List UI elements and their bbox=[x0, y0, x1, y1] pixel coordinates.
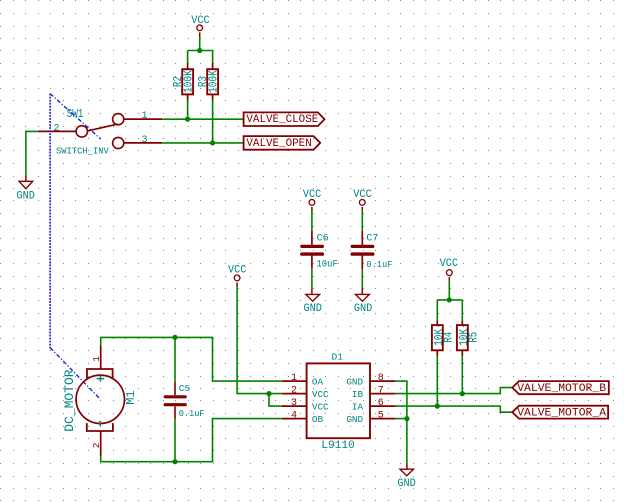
junction pin5/pin8 bbox=[404, 416, 409, 421]
pin 5 GND (D1) bbox=[346, 411, 395, 426]
svg-text:2: 2 bbox=[91, 443, 102, 449]
svg-text:3: 3 bbox=[141, 135, 147, 146]
svg-text:C6: C6 bbox=[317, 234, 329, 245]
ground GND (C6) bbox=[303, 288, 321, 315]
ground GND (C7) bbox=[354, 288, 372, 315]
power VCC (above R4/R5) bbox=[440, 258, 458, 281]
mechanical link dashed line (vertical) bbox=[49, 94, 51, 348]
motor plus mark bbox=[97, 376, 105, 382]
global label VALVE_OPEN bbox=[244, 136, 321, 150]
pin 2 VCC (D1) bbox=[282, 386, 329, 401]
wire IC pin5 to ground rail bbox=[396, 418, 407, 420]
svg-text:GND: GND bbox=[354, 303, 372, 315]
pin 6 IA (D1) bbox=[352, 398, 396, 413]
junction at VCC split bbox=[197, 48, 202, 53]
wire C7 to ground bbox=[361, 269, 363, 288]
svg-text:1: 1 bbox=[141, 111, 147, 122]
wire R4 bottom to node row pin6 bbox=[436, 356, 438, 407]
svg-text:GND: GND bbox=[16, 190, 34, 202]
wire C6 to ground bbox=[311, 269, 313, 288]
wire ground rail down bbox=[406, 419, 408, 464]
svg-text:GND: GND bbox=[346, 377, 363, 388]
junction C5 top bbox=[172, 335, 177, 340]
wire IC pin6 to VALVE_MOTOR_A bbox=[396, 406, 513, 412]
pin 3 VCC (D1) bbox=[282, 398, 329, 413]
svg-text:8: 8 bbox=[378, 373, 384, 384]
svg-text:VCC: VCC bbox=[312, 389, 329, 400]
global label VALVE_CLOSE bbox=[244, 112, 325, 126]
svg-text:C5: C5 bbox=[179, 383, 191, 394]
power VCC (above C7) bbox=[353, 189, 371, 211]
svg-text:GND: GND bbox=[346, 414, 363, 425]
svg-text:VALVE_MOTOR_B: VALVE_MOTOR_B bbox=[517, 383, 606, 395]
wire row3: switch pin3 to VALVE_OPEN bbox=[162, 142, 243, 144]
wire VCC to R4/R5 tops bbox=[437, 281, 462, 321]
pin 1 OA (D1) bbox=[282, 373, 324, 388]
power VCC (above C6) bbox=[303, 189, 321, 211]
op-amp driver IC D1 body bbox=[307, 363, 370, 438]
wire IC pin8 to ground rail bbox=[396, 381, 407, 419]
svg-text:100K: 100K bbox=[183, 70, 196, 93]
mechanical link dashed line (switch lever) bbox=[50, 94, 101, 139]
svg-text:OB: OB bbox=[312, 414, 324, 425]
svg-text:VALVE_MOTOR_A: VALVE_MOTOR_A bbox=[517, 408, 606, 420]
junction row3/R3 bbox=[210, 140, 215, 145]
svg-text:IA: IA bbox=[352, 402, 364, 413]
svg-text:6: 6 bbox=[378, 398, 384, 409]
svg-text:R5: R5 bbox=[467, 332, 481, 343]
svg-text:VALVE_CLOSE: VALVE_CLOSE bbox=[246, 114, 318, 126]
svg-text:GND: GND bbox=[303, 303, 321, 315]
power VCC (IC pin2) bbox=[228, 264, 246, 286]
resistor R5 bbox=[457, 320, 468, 355]
svg-text:3: 3 bbox=[291, 398, 297, 409]
wire R2 bottom to node row1 bbox=[187, 100, 189, 119]
svg-text:GND: GND bbox=[397, 478, 415, 490]
svg-text:SWITCH_INV: SWITCH_INV bbox=[56, 146, 110, 156]
svg-text:IB: IB bbox=[352, 389, 364, 400]
wire VCC to C6 bbox=[311, 210, 313, 231]
junction C5 bottom bbox=[172, 459, 177, 464]
wire motor pin1 to IC pin1 bbox=[101, 337, 282, 381]
wire switch common to ground bbox=[26, 131, 38, 175]
svg-text:1: 1 bbox=[291, 373, 297, 384]
wire motor pin2 to IC pin4 bbox=[101, 419, 282, 462]
power VCC (net VCC, above R2/R3) bbox=[191, 15, 209, 37]
global label VALVE_MOTOR_A bbox=[512, 406, 608, 420]
svg-text:R4: R4 bbox=[442, 332, 456, 343]
ground GND (switch) bbox=[16, 176, 34, 203]
junction pin2/pin3 bbox=[266, 391, 271, 396]
svg-text:OA: OA bbox=[312, 377, 324, 388]
wire R3 bottom to node row3 bbox=[212, 100, 214, 143]
junction R5/pin7 bbox=[460, 391, 465, 396]
resistor R4 bbox=[432, 320, 443, 355]
svg-text:1: 1 bbox=[91, 356, 102, 362]
capacitor C5 bbox=[165, 337, 185, 461]
wire jog to IC pin3 bbox=[269, 394, 282, 407]
svg-text:10uF: 10uF bbox=[316, 258, 338, 270]
resistor R3 bbox=[207, 63, 218, 100]
wire VCC to IC pin2 bbox=[237, 286, 282, 393]
svg-text:VCC: VCC bbox=[312, 402, 329, 413]
pin 7 IB (D1) bbox=[352, 386, 396, 401]
wire VCC to R2/R3 tops bbox=[188, 37, 213, 63]
svg-text:2: 2 bbox=[53, 123, 59, 134]
svg-text:M1: M1 bbox=[124, 390, 138, 404]
global label VALVE_MOTOR_B bbox=[512, 381, 609, 395]
svg-text:C7: C7 bbox=[366, 234, 378, 245]
wire R5 bottom to node row pin7 bbox=[461, 356, 463, 394]
svg-text:0.1uF: 0.1uF bbox=[366, 258, 392, 270]
svg-text:DC_MOTOR: DC_MOTOR bbox=[62, 369, 77, 432]
svg-text:L9110: L9110 bbox=[321, 440, 355, 452]
wire VCC to C7 bbox=[361, 210, 363, 231]
wire row1: switch pin1 to VALVE_CLOSE bbox=[162, 118, 243, 120]
svg-text:2: 2 bbox=[291, 386, 297, 397]
ground GND (IC) bbox=[397, 463, 415, 490]
wire IC pin7 to VALVE_MOTOR_B bbox=[396, 388, 513, 394]
svg-text:VALVE_OPEN: VALVE_OPEN bbox=[246, 138, 311, 150]
svg-text:4: 4 bbox=[291, 411, 297, 422]
pin 8 GND (D1) bbox=[346, 373, 395, 388]
capacitor C6 bbox=[302, 231, 323, 269]
svg-text:7: 7 bbox=[378, 386, 384, 397]
junction R4/pin6 bbox=[435, 404, 440, 409]
junction row1/R2 bbox=[185, 117, 190, 122]
junction at VCC split (R4/R5) bbox=[447, 297, 452, 302]
motor M1 bbox=[76, 345, 124, 456]
mechanical link dashed line (to motor) bbox=[50, 348, 100, 400]
svg-text:5: 5 bbox=[378, 411, 384, 422]
svg-text:VCC: VCC bbox=[440, 258, 458, 270]
motor minus mark bbox=[99, 421, 101, 426]
svg-text:0.1uF: 0.1uF bbox=[179, 407, 205, 419]
switch SW1 bbox=[38, 114, 162, 149]
svg-text:D1: D1 bbox=[331, 351, 343, 362]
svg-text:100K: 100K bbox=[208, 70, 221, 93]
resistor R2 bbox=[182, 63, 193, 100]
capacitor C7 bbox=[352, 231, 373, 269]
pin 4 OB (D1) bbox=[282, 411, 324, 426]
